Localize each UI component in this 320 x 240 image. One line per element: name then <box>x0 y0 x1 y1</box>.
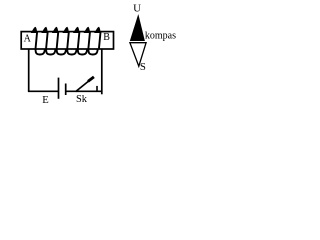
switch Sk handle <box>88 77 94 82</box>
wire from A side down <box>28 49 30 91</box>
coil core rectangle A-B <box>21 32 113 49</box>
svg-text:E: E <box>42 95 48 106</box>
wire from B side down <box>101 49 103 94</box>
wire bottom middle to right <box>66 90 102 92</box>
battery E short plate <box>65 84 67 96</box>
svg-text:B: B <box>103 32 110 43</box>
coil turn 2 <box>42 27 47 32</box>
svg-text:S: S <box>140 61 146 73</box>
coil turn 3 <box>53 27 58 32</box>
switch Sk blade <box>76 77 94 91</box>
switch Sk fixed contact <box>96 86 98 91</box>
svg-text:kompas: kompas <box>145 30 176 41</box>
svg-text:U: U <box>133 3 141 15</box>
coil turn 7 <box>95 27 100 32</box>
coil turn 4 <box>63 27 68 32</box>
coil turn 6 <box>84 27 89 32</box>
wire bottom left to battery <box>28 90 59 92</box>
svg-text:Sk: Sk <box>76 94 88 105</box>
compass needle north half (filled) <box>130 14 145 41</box>
battery E long plate <box>58 78 60 99</box>
coil turn 5 <box>74 27 79 32</box>
coil turn 1 <box>32 27 37 32</box>
compass needle south half (outline) <box>130 43 146 66</box>
svg-text:A: A <box>24 33 32 44</box>
